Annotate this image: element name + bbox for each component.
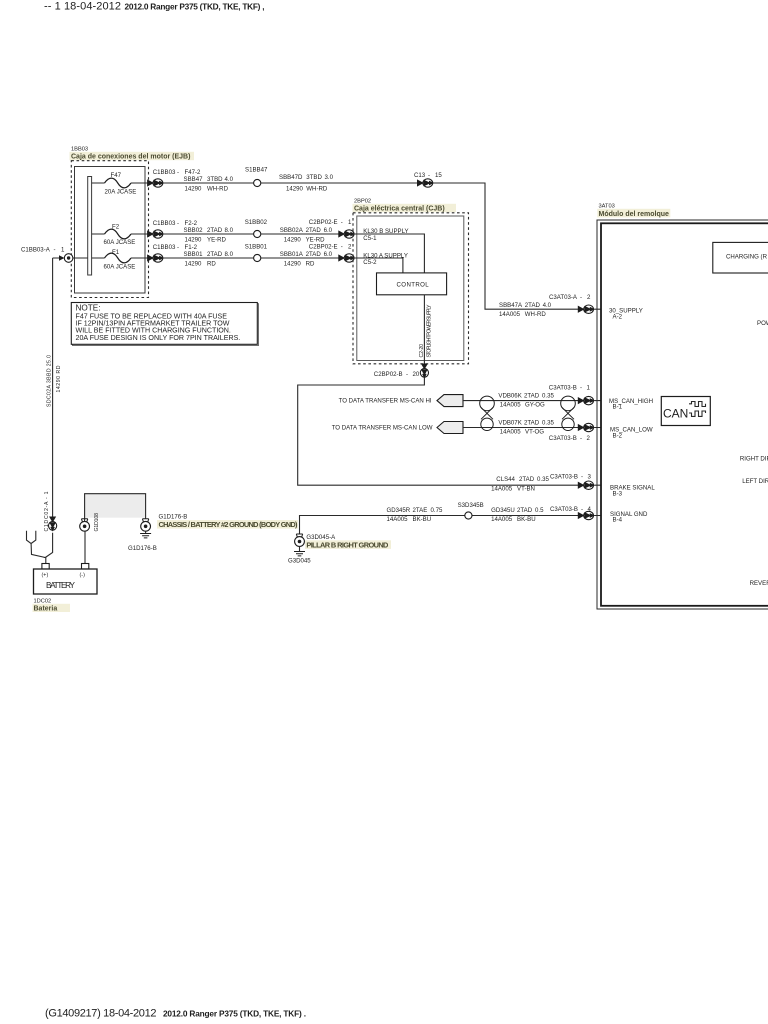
svg-text:GY-OG: GY-OG — [525, 402, 545, 409]
wire signal ground GD345 — [300, 516, 602, 535]
off-page arrow MS-CAN HI — [437, 395, 463, 407]
svg-text:8.0: 8.0 — [225, 227, 234, 234]
earth ground symbol G3D045 — [294, 552, 305, 556]
svg-text:4.0: 4.0 — [543, 302, 552, 309]
svg-text:2TAD: 2TAD — [525, 302, 541, 309]
ground eyelet G1D108 — [80, 519, 90, 531]
svg-text:C2BP02-E: C2BP02-E — [309, 244, 338, 251]
svg-text:C3AT03-B: C3AT03-B — [550, 506, 578, 513]
connector C1BB03 F2-2 — [148, 230, 163, 238]
connector C3AT03-B pin 3 — [578, 481, 593, 489]
twisted pair symbol left — [480, 396, 495, 430]
CJB solid box — [357, 216, 464, 361]
svg-text:2012.0 Ranger P375 (TKD, TKE,: 2012.0 Ranger P375 (TKD, TKE, TKF) . — [163, 1009, 306, 1019]
svg-text:3TBD: 3TBD — [306, 174, 322, 181]
svg-text:14290: 14290 — [286, 186, 304, 193]
ground bar wires — [85, 494, 146, 519]
svg-text:SBB47D: SBB47D — [279, 174, 303, 181]
battery terminals — [42, 564, 49, 570]
svg-text:2: 2 — [348, 244, 352, 251]
CJB pin KL30 A SUPPLY C5-2 — [353, 258, 403, 273]
svg-text:2TAD: 2TAD — [517, 507, 533, 514]
svg-text:VT-BN: VT-BN — [517, 486, 535, 493]
twisted pair symbol right — [561, 396, 576, 430]
svg-text:NOTE:: NOTE: — [76, 304, 101, 313]
connector C1BB03 F1-2 — [148, 254, 163, 262]
splice S1BB47 — [254, 179, 261, 186]
svg-text:(G1409217) 18-04-2012: (G1409217) 18-04-2012 — [45, 1008, 157, 1020]
svg-text:C5-1: C5-1 — [363, 235, 377, 242]
svg-text:2TAE: 2TAE — [413, 507, 428, 514]
svg-text:2TAD: 2TAD — [519, 476, 535, 483]
svg-text:14290: 14290 — [185, 237, 203, 244]
svg-text:14290: 14290 — [284, 237, 302, 244]
svg-text:2BP02: 2BP02 — [354, 198, 371, 204]
svg-text:G1D108: G1D108 — [94, 513, 100, 532]
svg-text:C1BB03: C1BB03 — [153, 220, 176, 227]
fork eyelet symbol battery positive — [27, 531, 46, 558]
off-page arrow MS-CAN LOW — [437, 422, 463, 434]
svg-text:C3AT03-B: C3AT03-B — [549, 435, 577, 442]
svg-text:PILLAR B RIGHT GROUND: PILLAR B RIGHT GROUND — [306, 540, 389, 549]
svg-text:C2BP02-E: C2BP02-E — [309, 219, 338, 226]
svg-text:6.0: 6.0 — [324, 251, 333, 258]
svg-text:CHASSIS / BATTERY #2 GROUND (B: CHASSIS / BATTERY #2 GROUND (BODY GND) — [159, 520, 299, 529]
splice S1BB01 — [254, 254, 261, 261]
svg-text:1: 1 — [61, 247, 65, 254]
fuse F1 — [105, 253, 132, 263]
svg-text:3: 3 — [588, 474, 592, 481]
svg-text:14A005: 14A005 — [499, 311, 521, 318]
connector C2BP02-E pin 1 — [339, 230, 354, 238]
svg-text:14290: 14290 — [185, 186, 203, 193]
wire F47-2 SBB47 to module — [163, 183, 602, 309]
connector C3AT03-B pin 2 — [578, 423, 593, 431]
svg-text:0.35: 0.35 — [537, 476, 549, 483]
svg-text:Módulo del remolque: Módulo del remolque — [599, 211, 669, 218]
connector C1DC02-A pin 1 — [49, 517, 57, 530]
svg-text:Caja eléctrica central (CJB): Caja eléctrica central (CJB) — [354, 206, 445, 213]
svg-text:1: 1 — [587, 385, 591, 392]
svg-text:0.5: 0.5 — [535, 507, 544, 514]
splice S1BB02 — [254, 230, 261, 237]
wire fuse F47 feed — [92, 182, 148, 184]
svg-text:SBB47: SBB47 — [184, 176, 204, 183]
wire MS-CAN LOW — [463, 427, 601, 429]
earth ground symbol G1D176-B — [140, 534, 151, 538]
NOTE box — [73, 304, 259, 346]
svg-text:2TAD: 2TAD — [524, 420, 540, 427]
svg-text:60A JCASE: 60A JCASE — [104, 264, 136, 271]
svg-text:F47: F47 — [111, 172, 122, 179]
connector C13 pin 15 — [418, 179, 433, 187]
connector C1BB03 F47-2 — [148, 179, 163, 187]
svg-text:-: - — [54, 247, 56, 254]
wire fuse F1 feed — [92, 257, 148, 259]
svg-text:0.35: 0.35 — [542, 420, 554, 427]
svg-text:-: - — [177, 244, 179, 251]
svg-text:SBB01A: SBB01A — [280, 251, 304, 258]
svg-text:S3D345B: S3D345B — [458, 502, 484, 509]
svg-text:G1D176-B: G1D176-B — [128, 545, 157, 552]
svg-text:-- 1 18-04-2012: -- 1 18-04-2012 — [44, 1, 121, 13]
svg-text:RIGHT DIR: RIGHT DIR — [740, 455, 768, 462]
svg-text:C3AT03-B: C3AT03-B — [550, 474, 578, 481]
svg-text:3.0: 3.0 — [325, 174, 334, 181]
battery box — [34, 569, 98, 594]
ground eyelet G3D045-A — [295, 534, 305, 546]
wire eyelet to earth G1D176 — [145, 531, 147, 533]
CJB pin KL30 B SUPPLY C5-1 — [353, 234, 425, 273]
svg-text:-: - — [428, 172, 430, 179]
wire CONTROL output C2-20 — [298, 295, 601, 485]
svg-text:-: - — [177, 220, 179, 227]
svg-text:SBB02: SBB02 — [184, 227, 204, 234]
EJB dashed box — [71, 161, 148, 298]
svg-text:S1BB01: S1BB01 — [245, 244, 268, 251]
svg-text:0.35: 0.35 — [542, 393, 554, 400]
svg-text:YE-RD: YE-RD — [306, 237, 326, 244]
svg-text:CLS44: CLS44 — [496, 476, 515, 483]
connector C3AT03-A pin 2 — [578, 305, 593, 313]
svg-text:SDC02A 3BBD 25.0: SDC02A 3BBD 25.0 — [47, 355, 53, 407]
svg-text:-: - — [581, 506, 583, 513]
svg-text:C1DC02-A - 1: C1DC02-A - 1 — [44, 491, 50, 531]
CAN square wave top — [689, 402, 706, 407]
svg-text:B-4: B-4 — [613, 517, 623, 524]
CHARGING relay box — [713, 242, 768, 273]
svg-text:14A005: 14A005 — [387, 516, 409, 523]
svg-text:14290: 14290 — [185, 261, 203, 268]
svg-text:4.0: 4.0 — [225, 176, 234, 183]
svg-text:GD345U: GD345U — [491, 507, 515, 514]
svg-text:1BB03: 1BB03 — [71, 147, 88, 153]
svg-text:GD345R: GD345R — [387, 507, 411, 514]
svg-text:STOPLIGHT POWER SUPPLY: STOPLIGHT POWER SUPPLY — [427, 304, 433, 358]
svg-text:G3D045: G3D045 — [288, 558, 311, 565]
svg-text:2TAD: 2TAD — [306, 227, 322, 234]
svg-text:C2BP02-B: C2BP02-B — [374, 371, 403, 378]
svg-text:F2: F2 — [112, 224, 120, 231]
svg-text:2TAD: 2TAD — [207, 251, 223, 258]
svg-text:S1BB02: S1BB02 — [245, 219, 268, 226]
svg-text:14290: 14290 — [284, 261, 302, 268]
fuse F2 — [105, 229, 132, 239]
svg-text:VT-OG: VT-OG — [525, 429, 544, 436]
svg-text:3TBD: 3TBD — [207, 176, 223, 183]
connector C2BP02-E pin 2 — [339, 254, 354, 262]
svg-text:RD: RD — [306, 261, 315, 268]
splice S3D345B — [465, 512, 472, 519]
svg-text:3AT03: 3AT03 — [599, 203, 615, 209]
wire MS-CAN HI — [463, 400, 601, 402]
svg-text:-: - — [406, 371, 408, 378]
svg-text:14290 RD: 14290 RD — [56, 365, 62, 392]
module inner box — [601, 223, 768, 606]
svg-text:20A FUSE DESIGN IS ONLY FOR 7P: 20A FUSE DESIGN IS ONLY FOR 7PIN TRAILER… — [76, 334, 241, 342]
svg-text:C1BB03: C1BB03 — [153, 169, 176, 176]
svg-text:2TAD: 2TAD — [207, 227, 223, 234]
connector C2BP02-B pin 20 — [420, 364, 428, 377]
wire battery negative — [84, 519, 86, 564]
ground eyelet G1D176-B — [141, 519, 151, 531]
svg-text:BK-BU: BK-BU — [517, 516, 536, 523]
svg-text:C13: C13 — [414, 172, 426, 179]
svg-text:C1BB03-A: C1BB03-A — [21, 247, 51, 254]
svg-text:LEFT DIR: LEFT DIR — [742, 478, 768, 485]
svg-text:C3AT03-B: C3AT03-B — [549, 385, 577, 392]
svg-text:14A005: 14A005 — [500, 429, 522, 436]
svg-text:F47-2: F47-2 — [185, 169, 202, 176]
wire F2-2 SBB02 to CJB — [163, 233, 342, 235]
svg-text:F1: F1 — [112, 249, 120, 256]
svg-text:2: 2 — [587, 435, 591, 442]
svg-text:B-3: B-3 — [613, 490, 623, 497]
wire battery positive cable — [45, 258, 52, 564]
svg-text:CAN: CAN — [663, 406, 688, 420]
svg-text:20A JCASE: 20A JCASE — [105, 189, 137, 196]
CONTROL box — [377, 273, 447, 295]
svg-text:CHARGING (R: CHARGING (R — [726, 254, 768, 261]
svg-text:WH-RD: WH-RD — [306, 186, 328, 193]
svg-text:SBB02A: SBB02A — [280, 227, 304, 234]
wire F1-2 SBB01 to CJB — [163, 257, 342, 259]
svg-text:Bateria: Bateria — [34, 605, 58, 612]
svg-text:REVERSE: REVERSE — [750, 580, 768, 587]
svg-text:20: 20 — [413, 371, 420, 378]
svg-text:SBB01: SBB01 — [184, 251, 204, 258]
svg-text:-: - — [177, 169, 179, 176]
module outer box — [597, 220, 768, 609]
svg-text:TO DATA TRANSFER MS-CAN LOW: TO DATA TRANSFER MS-CAN LOW — [332, 425, 433, 432]
svg-text:C1BB03: C1BB03 — [153, 244, 176, 251]
svg-text:-: - — [341, 244, 343, 251]
svg-text:2: 2 — [587, 294, 591, 301]
EJB solid box — [75, 167, 146, 294]
svg-text:-: - — [580, 294, 582, 301]
svg-text:2TAD: 2TAD — [306, 251, 322, 258]
svg-text:S1BB47: S1BB47 — [245, 167, 268, 174]
svg-text:CONTROL: CONTROL — [397, 281, 430, 288]
svg-text:WH-RD: WH-RD — [207, 186, 229, 193]
svg-text:C3AT03-A: C3AT03-A — [549, 294, 578, 301]
svg-text:60A JCASE: 60A JCASE — [104, 239, 136, 246]
svg-text:14A005: 14A005 — [491, 486, 513, 493]
svg-text:VDB06K: VDB06K — [498, 393, 521, 400]
svg-text:TO DATA TRANSFER MS-CAN HI: TO DATA TRANSFER MS-CAN HI — [339, 398, 432, 405]
svg-text:15: 15 — [435, 172, 442, 179]
svg-text:(-): (-) — [80, 573, 86, 579]
svg-text:2TAD: 2TAD — [524, 393, 540, 400]
svg-text:BK-BU: BK-BU — [413, 516, 432, 523]
wire battery cable to EJB — [53, 257, 88, 259]
svg-text:14A005: 14A005 — [491, 516, 513, 523]
fuse F47 — [105, 178, 132, 188]
svg-text:WH-RD: WH-RD — [525, 311, 547, 318]
svg-text:-: - — [581, 474, 583, 481]
svg-text:8.0: 8.0 — [225, 251, 234, 258]
svg-text:B-2: B-2 — [613, 432, 623, 439]
wire fuse F2 feed — [92, 233, 148, 235]
connector C3AT03-B pin 1 — [578, 396, 593, 404]
connector C1BB03-A eyelet — [59, 254, 73, 263]
CAN transceiver box — [661, 397, 710, 426]
svg-text:0.75: 0.75 — [431, 507, 443, 514]
svg-text:Caja de conexiones del motor (: Caja de conexiones del motor (EJB) — [71, 154, 190, 161]
svg-text:BATTERY: BATTERY — [46, 581, 76, 590]
wire eyelet to earth G3D045 — [299, 546, 301, 551]
ground distribution bar shading — [85, 494, 146, 518]
svg-text:1: 1 — [348, 219, 352, 226]
svg-text:-: - — [580, 385, 582, 392]
svg-text:A-2: A-2 — [613, 313, 623, 320]
svg-text:VDB07K: VDB07K — [498, 420, 521, 427]
svg-text:6.0: 6.0 — [324, 227, 333, 234]
svg-text:-: - — [580, 435, 582, 442]
svg-text:(+): (+) — [42, 573, 49, 579]
svg-text:POWER: POWER — [757, 320, 768, 327]
svg-text:SBB47A: SBB47A — [499, 302, 523, 309]
svg-text:F2-2: F2-2 — [185, 220, 198, 227]
svg-text:14A005: 14A005 — [500, 402, 522, 409]
svg-text:1DC02: 1DC02 — [34, 599, 52, 605]
CAN square wave bottom — [689, 411, 706, 416]
svg-text:-: - — [341, 219, 343, 226]
svg-text:B-1: B-1 — [613, 403, 623, 410]
CJB dashed box — [353, 213, 469, 364]
svg-text:C2-20: C2-20 — [419, 344, 425, 358]
EJB bus bar — [88, 177, 92, 276]
svg-text:RD: RD — [207, 261, 216, 268]
svg-text:2012.0 Ranger P375 (TKD, TKE,: 2012.0 Ranger P375 (TKD, TKE, TKF) , — [125, 2, 265, 12]
svg-text:F1-2: F1-2 — [185, 244, 198, 251]
svg-text:C5-2: C5-2 — [363, 259, 377, 266]
connector C3AT03-B pin 4 — [578, 511, 593, 519]
svg-text:YE-RD: YE-RD — [207, 237, 227, 244]
